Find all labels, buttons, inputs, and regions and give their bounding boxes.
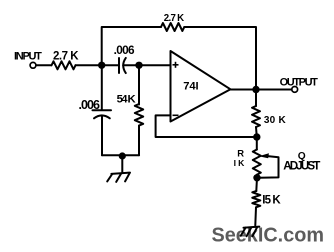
svg-text:.006: .006 [79, 98, 101, 112]
svg-text:74I: 74I [183, 81, 198, 93]
svg-text:R: R [237, 147, 244, 158]
svg-text:2.7 K: 2.7 K [53, 50, 79, 62]
svg-text:OUTPUT: OUTPUT [280, 77, 319, 89]
svg-text:.006: .006 [114, 43, 135, 57]
svg-text:I5 K: I5 K [262, 194, 281, 206]
svg-text:INPUT: INPUT [14, 51, 42, 63]
svg-text:ADJUST: ADJUST [283, 160, 320, 173]
svg-text:30 K: 30 K [264, 115, 287, 126]
svg-text:SeekIC.com: SeekIC.com [212, 224, 325, 246]
svg-text:I K: I K [234, 158, 245, 168]
svg-text:54 K: 54 K [117, 93, 137, 105]
svg-text:2.7 K: 2.7 K [164, 13, 184, 24]
